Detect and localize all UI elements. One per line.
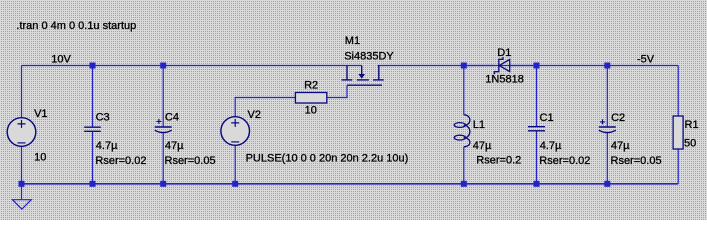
svg-text:47µ: 47µ bbox=[473, 140, 492, 152]
svg-text:C4: C4 bbox=[165, 112, 179, 124]
svg-text:.tran 0 4m 0 0.1u startup: .tran 0 4m 0 0.1u startup bbox=[16, 20, 136, 32]
svg-text:D1: D1 bbox=[497, 47, 511, 59]
svg-text:47µ: 47µ bbox=[611, 140, 630, 152]
svg-text:-5V: -5V bbox=[637, 54, 655, 66]
svg-text:4.7µ: 4.7µ bbox=[540, 140, 562, 152]
svg-text:10V: 10V bbox=[51, 54, 71, 66]
svg-text:R1: R1 bbox=[685, 119, 699, 131]
svg-text:47µ: 47µ bbox=[165, 140, 184, 152]
svg-text:Rser=0.05: Rser=0.05 bbox=[611, 155, 662, 167]
svg-text:Rser=0.05: Rser=0.05 bbox=[165, 155, 216, 167]
svg-text:R2: R2 bbox=[304, 80, 318, 92]
svg-text:Si4835DY: Si4835DY bbox=[344, 51, 394, 63]
svg-text:1N5818: 1N5818 bbox=[485, 73, 524, 85]
svg-text:L1: L1 bbox=[473, 119, 485, 131]
svg-text:C2: C2 bbox=[611, 112, 625, 124]
svg-text:V1: V1 bbox=[34, 108, 47, 120]
svg-text:C3: C3 bbox=[96, 112, 110, 124]
svg-text:10: 10 bbox=[305, 105, 317, 117]
svg-text:Rser=0.02: Rser=0.02 bbox=[539, 155, 590, 167]
svg-text:V2: V2 bbox=[248, 109, 261, 121]
svg-text:10: 10 bbox=[34, 152, 46, 164]
svg-text:50: 50 bbox=[684, 137, 696, 149]
svg-text:4.7µ: 4.7µ bbox=[96, 140, 118, 152]
svg-text:C1: C1 bbox=[540, 112, 554, 124]
svg-text:M1: M1 bbox=[345, 35, 360, 47]
svg-text:Rser=0.02: Rser=0.02 bbox=[95, 155, 146, 167]
svg-text:Rser=0.2: Rser=0.2 bbox=[476, 154, 521, 166]
svg-text:PULSE(10 0 0 20n 20n 2.2u 10u): PULSE(10 0 0 20n 20n 2.2u 10u) bbox=[246, 153, 409, 165]
